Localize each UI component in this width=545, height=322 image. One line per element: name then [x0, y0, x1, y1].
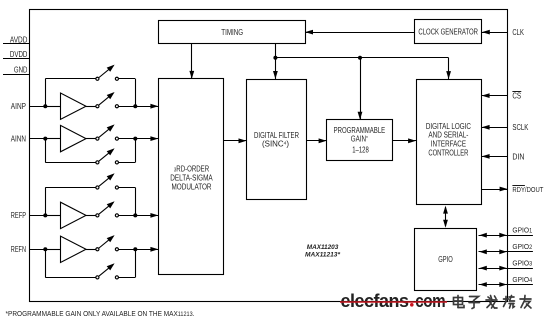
svg-text:DVDD: DVDD	[10, 50, 28, 59]
svg-text:MAX11203: MAX11203	[307, 244, 339, 251]
svg-text:elecfans: elecfans	[341, 290, 409, 311]
svg-text:GPIO4: GPIO4	[512, 275, 532, 284]
svg-text:CLK: CLK	[512, 28, 524, 37]
svg-text:INTERFACE: INTERFACE	[431, 140, 466, 149]
svg-text:REFP: REFP	[11, 211, 26, 220]
svg-text:1–128: 1–128	[352, 145, 369, 154]
svg-text:3RD-ORDER: 3RD-ORDER	[174, 165, 209, 174]
svg-text:DELTA-SIGMA: DELTA-SIGMA	[170, 174, 213, 183]
svg-text:CLOCK GENERATOR: CLOCK GENERATOR	[418, 28, 478, 37]
svg-text:GPIO3: GPIO3	[512, 259, 532, 268]
svg-text:PROGRAMMABLE: PROGRAMMABLE	[334, 126, 386, 135]
svg-text:AND SERIAL-: AND SERIAL-	[428, 131, 468, 140]
svg-text:TIMING: TIMING	[221, 28, 243, 37]
svg-text:GPIO: GPIO	[438, 255, 453, 264]
svg-text:CONTROLLER: CONTROLLER	[428, 149, 468, 158]
svg-text:MAX11213*: MAX11213*	[305, 252, 341, 259]
svg-text:CS: CS	[512, 92, 521, 101]
svg-text:DIGITAL LOGIC: DIGITAL LOGIC	[426, 122, 471, 131]
svg-text:RDY/DOUT: RDY/DOUT	[512, 185, 543, 194]
svg-text:GPIO1: GPIO1	[512, 226, 532, 235]
svg-text:*PROGRAMMABLE GAIN ONLY AVAILA: *PROGRAMMABLE GAIN ONLY AVAILABLE ON THE…	[6, 309, 195, 318]
svg-text:GPIO2: GPIO2	[512, 242, 532, 251]
svg-text:AVDD: AVDD	[10, 35, 28, 44]
svg-text:MODULATOR: MODULATOR	[172, 183, 212, 192]
svg-text:AINP: AINP	[11, 102, 26, 111]
svg-text:GAIN*: GAIN*	[351, 135, 369, 144]
svg-text:com: com	[415, 290, 445, 311]
svg-text:DIN: DIN	[512, 152, 524, 161]
svg-text:REFN: REFN	[11, 245, 26, 254]
svg-text:AINN: AINN	[11, 134, 26, 143]
svg-text:GND: GND	[14, 66, 28, 75]
svg-text:SCLK: SCLK	[512, 123, 529, 132]
